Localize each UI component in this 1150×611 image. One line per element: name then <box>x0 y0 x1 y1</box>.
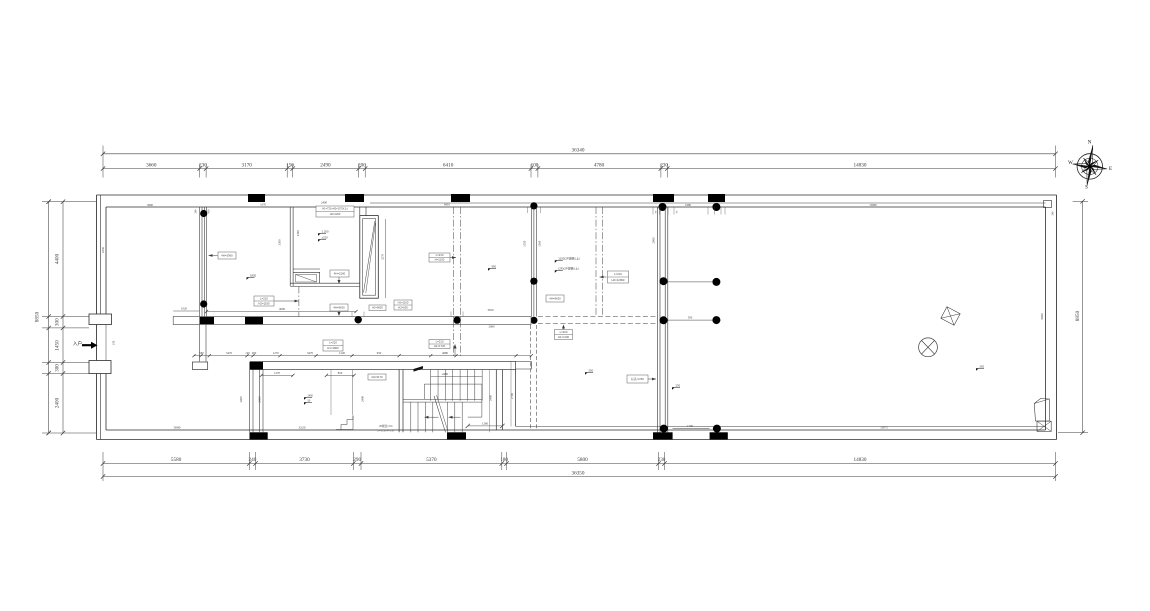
stair up arrow <box>454 345 456 356</box>
svg-text:W: W <box>1068 161 1073 166</box>
interior dim line y355.7 <box>194 355 531 357</box>
right wall inner line <box>1045 207 1047 430</box>
top dim tick <box>1055 146 1057 178</box>
right wall outer line <box>1056 195 1058 440</box>
svg-text:3170: 3170 <box>260 202 267 206</box>
elevation mark stairs right <box>585 373 592 375</box>
entrance pillar upper box <box>89 314 112 325</box>
svg-text:2400: 2400 <box>239 396 243 403</box>
svg-text:L=210: L=210 <box>436 253 444 257</box>
svg-text:4780: 4780 <box>594 162 605 168</box>
wall C column circle beam <box>530 317 537 324</box>
svg-text:H2=12990: H2=12990 <box>612 278 625 282</box>
wall B lines x291 <box>289 207 291 286</box>
left wall outer line <box>96 195 98 440</box>
svg-text:2980: 2980 <box>652 237 656 244</box>
top dim tick <box>530 164 532 178</box>
svg-text:E: E <box>1109 167 1112 172</box>
svg-text:8850: 8850 <box>35 311 41 322</box>
elevation mark hall b <box>555 271 562 273</box>
tall frame outer <box>360 216 379 299</box>
tall frame diagonal <box>364 221 375 293</box>
svg-text:1850: 1850 <box>250 274 257 278</box>
svg-text:L=210: L=210 <box>614 272 622 276</box>
label box K <box>608 271 629 283</box>
bottom dim tick <box>1055 452 1057 470</box>
top dim tick <box>358 164 360 178</box>
wall C lines x534 <box>530 207 532 317</box>
bottom dim tick <box>102 452 104 470</box>
svg-text:入户: 入户 <box>73 340 82 347</box>
shaft inner detail <box>296 275 317 283</box>
svg-text:290: 290 <box>353 457 361 463</box>
svg-text:3660: 3660 <box>146 162 157 168</box>
tall frame inner <box>363 219 376 296</box>
svg-text:3220: 3220 <box>299 426 306 430</box>
stair lower flight treads <box>410 402 412 432</box>
top dim tick <box>660 164 662 178</box>
dim vertical x352.5 <box>352 370 354 415</box>
svg-text:1980: 1980 <box>685 203 692 207</box>
svg-text:3660: 3660 <box>147 203 154 207</box>
top dim tick <box>199 164 201 178</box>
top-right corner column notch <box>1044 201 1052 208</box>
svg-text:36340: 36340 <box>572 148 585 154</box>
interior dim line y375.4 1270 <box>261 374 293 376</box>
svg-text:560: 560 <box>199 351 204 355</box>
top dim tick <box>292 164 294 178</box>
svg-text:1270: 1270 <box>274 371 281 375</box>
label box C <box>330 270 349 277</box>
svg-text:3270: 3270 <box>381 254 385 261</box>
svg-text:260: 260 <box>252 351 257 355</box>
svg-text:950: 950 <box>492 265 497 269</box>
right dimension line 8850 <box>1082 201 1084 432</box>
elevation mark wallD <box>672 388 679 390</box>
stair flight separator <box>403 398 482 400</box>
centerline x299 <box>298 287 300 317</box>
left wall inner line <box>105 207 107 314</box>
top segment dimension line <box>103 168 1056 170</box>
svg-text:2400: 2400 <box>489 395 493 402</box>
svg-text:200: 200 <box>358 162 366 168</box>
svg-text:6410: 6410 <box>444 202 451 206</box>
elevation mark room3 a <box>318 234 325 236</box>
column top wall x653 <box>653 194 674 202</box>
svg-text:850: 850 <box>338 371 343 375</box>
free column x716 bottom <box>713 425 721 433</box>
bottom dim tick <box>664 452 666 470</box>
svg-text:L=210: L=210 <box>260 297 268 301</box>
beam circle tick marks <box>351 312 353 317</box>
mid beam dashed continuation <box>538 316 658 318</box>
svg-text:230: 230 <box>199 162 207 168</box>
mid beam wall band <box>173 317 531 325</box>
svg-text:100: 100 <box>531 162 539 168</box>
wall x250 below to bottom <box>249 370 251 433</box>
free column x716 mid <box>712 278 720 286</box>
stair left wall <box>398 370 400 433</box>
bottom wall columns <box>250 432 268 439</box>
svg-text:1450: 1450 <box>55 340 61 351</box>
svg-text:1.200: 1.200 <box>322 230 329 234</box>
bottom dim tick <box>248 452 250 470</box>
svg-text:3170: 3170 <box>242 162 253 168</box>
svg-text:H=1100: H=1100 <box>435 258 445 262</box>
room dim 2700 <box>510 362 512 427</box>
svg-text:2490: 2490 <box>320 162 331 168</box>
label box D <box>254 296 274 306</box>
svg-text:250: 250 <box>589 369 594 373</box>
svg-text:5370: 5370 <box>426 457 437 463</box>
wall D column circle mid <box>660 277 668 285</box>
svg-text:2400: 2400 <box>55 397 61 408</box>
column tie line beam 500 <box>668 319 713 321</box>
svg-text:L=210: L=210 <box>436 340 444 344</box>
interior dim line y375.4 850 <box>326 374 354 376</box>
svg-text:3470: 3470 <box>307 351 314 355</box>
bottom dim tick <box>506 452 508 470</box>
svg-text:5080: 5080 <box>174 425 181 429</box>
column top wall x708 <box>708 194 725 202</box>
elevation mark hall a <box>555 261 562 263</box>
svg-text:2400: 2400 <box>321 201 328 205</box>
shaft bottom wall y285 <box>290 282 360 284</box>
right room end wall x516 <box>515 369 517 427</box>
svg-text:1400: 1400 <box>308 395 314 398</box>
top dim tick <box>205 164 207 178</box>
wall C top ticks <box>527 207 529 213</box>
dim 3270 rot <box>385 219 387 298</box>
svg-text:4H=3170: 4H=3170 <box>371 375 383 379</box>
label box I <box>546 295 564 302</box>
entrance pillar lower box <box>89 361 111 374</box>
svg-text:1220: 1220 <box>339 351 346 355</box>
elevation mark lower room a <box>304 398 311 400</box>
label box B <box>218 252 236 259</box>
svg-text:1560: 1560 <box>538 240 542 247</box>
label box A <box>316 206 354 217</box>
stair void rectangle <box>424 384 482 417</box>
column circle C-wall top <box>530 202 537 209</box>
bottom right corner ramp shape <box>1034 399 1049 422</box>
svg-text:120: 120 <box>245 351 250 355</box>
stair right dim 2400 <box>489 370 491 433</box>
svg-text:2=1850/9=150: 2=1850/9=150 <box>377 430 394 433</box>
svg-text:5800: 5800 <box>577 457 588 463</box>
label box G <box>394 300 412 310</box>
svg-text:150: 150 <box>286 162 294 168</box>
svg-text:H1=1100: H1=1100 <box>558 335 570 339</box>
svg-text:H2=2290: H2=2290 <box>330 212 341 216</box>
svg-text:S: S <box>1085 186 1088 191</box>
top wall middle line <box>370 202 1046 204</box>
svg-text:2400: 2400 <box>258 396 262 403</box>
top dim tick <box>537 164 539 178</box>
wall C column circle mid <box>530 278 537 285</box>
svg-text:L=220: L=220 <box>560 330 568 334</box>
stair upper flight treads <box>430 370 432 401</box>
shaft side <box>319 272 321 283</box>
svg-text:L=220: L=220 <box>329 341 337 345</box>
svg-text:2400: 2400 <box>361 396 365 403</box>
svg-text:1B梯宽:250: 1B梯宽:250 <box>379 424 393 428</box>
svg-text:3470: 3470 <box>226 351 233 355</box>
label box M <box>368 374 386 380</box>
mid beam column circle x457 <box>453 316 460 323</box>
svg-text:300: 300 <box>55 364 61 372</box>
stair direction arrow left flight <box>425 416 439 418</box>
svg-text:4H=9630: 4H=9630 <box>549 297 561 301</box>
svg-text:230: 230 <box>658 457 666 463</box>
dashed wall pair x533 lower <box>530 325 532 430</box>
left overall dimension line 8850 <box>48 202 50 433</box>
bottom dim tick <box>255 452 257 470</box>
column top wall x451 <box>451 194 470 202</box>
wall D lines x662 <box>656 207 658 434</box>
left dim tick <box>42 362 89 364</box>
bottom segment dimension line <box>103 463 1056 465</box>
svg-text:14830: 14830 <box>854 457 867 463</box>
top dim tick <box>666 164 668 178</box>
svg-text:4000: 4000 <box>279 307 286 311</box>
svg-text:1700: 1700 <box>687 424 694 428</box>
svg-text:1550: 1550 <box>523 240 527 247</box>
left dim tick <box>42 327 89 329</box>
svg-text:150: 150 <box>112 340 116 345</box>
svg-text:标高-3.050: 标高-3.050 <box>631 377 644 381</box>
top dim tick <box>364 164 366 178</box>
svg-text:240: 240 <box>249 457 257 463</box>
svg-text:6410: 6410 <box>443 162 454 168</box>
interior dim line y311 4000 <box>207 311 357 313</box>
svg-text:4H=2160: 4H=2160 <box>334 272 346 276</box>
svg-text:H2=9630: H2=9630 <box>372 306 383 310</box>
column circle D-wall top <box>659 203 667 211</box>
svg-text:H1=1720: H1=1720 <box>434 344 446 348</box>
lower wall band <box>250 362 515 370</box>
wall D column circle beam <box>660 316 668 324</box>
bottom dim tick <box>658 452 660 470</box>
elevation mark room4 <box>488 269 495 271</box>
svg-text:8850: 8850 <box>1075 310 1081 321</box>
centerline pair x599 <box>595 207 597 317</box>
svg-text:230: 230 <box>676 384 681 388</box>
stair right wall <box>495 370 497 431</box>
svg-text:180: 180 <box>500 457 508 463</box>
svg-text:1270: 1270 <box>273 351 280 355</box>
centerline pair x457 <box>453 207 455 356</box>
stair dim 1260 <box>468 425 503 427</box>
svg-text:4H=9630: 4H=9630 <box>333 306 345 310</box>
entrance arrow <box>82 342 98 349</box>
top wall outer line <box>97 194 1057 196</box>
elevation mark lower room b <box>304 403 311 405</box>
free column x716 beam <box>712 316 720 324</box>
stair section flag <box>414 366 424 372</box>
top dim tick <box>102 146 104 178</box>
svg-text:≥220: ≥220 <box>322 236 329 240</box>
bottom overall dimension line 36350 <box>103 476 1056 478</box>
svg-text:H1=720+H2=1570(上): H1=720+H2=1570(上) <box>322 207 348 211</box>
svg-text:3730: 3730 <box>299 457 310 463</box>
lower wall end rect <box>192 362 207 370</box>
bottom wall beam line right part <box>516 426 1046 428</box>
bottom dim tick <box>360 452 362 470</box>
svg-text:36350: 36350 <box>572 471 585 477</box>
compass rose <box>1070 143 1110 188</box>
frame link to top wall <box>359 207 361 216</box>
svg-text:H2=1160: H2=1160 <box>258 302 270 306</box>
mid beam column block 2 <box>245 317 263 324</box>
left wall line 2 <box>100 195 102 325</box>
svg-text:2060: 2060 <box>489 325 496 329</box>
stair dim 4480 <box>431 376 482 378</box>
column tie line bottom 1700 <box>673 428 710 430</box>
elevation mark room3 b <box>318 240 325 242</box>
interior dim 1020 above beam <box>173 310 199 312</box>
svg-text:H2=630: H2=630 <box>398 305 408 309</box>
column top wall x345 <box>345 194 364 202</box>
svg-text:8480: 8480 <box>1040 313 1044 320</box>
svg-text:1020: 1020 <box>181 306 188 310</box>
svg-text:3300: 3300 <box>277 239 281 246</box>
bottom dim tick <box>501 452 503 470</box>
svg-text:(2F)(2F轻钢)(上): (2F)(2F轻钢)(上) <box>558 267 579 271</box>
lower wall notch to wall C <box>516 362 532 370</box>
mid beam column block 1 <box>200 317 215 324</box>
left dim tick <box>42 201 96 203</box>
left dim tick <box>42 373 89 375</box>
shaft top wall y270 <box>293 268 320 270</box>
svg-text:2390: 2390 <box>296 230 300 237</box>
wall A lines x202 <box>199 207 201 317</box>
svg-text:1260: 1260 <box>482 421 489 425</box>
svg-text:4400: 4400 <box>55 253 61 264</box>
svg-text:14830: 14830 <box>854 162 867 168</box>
svg-text:250: 250 <box>980 365 985 369</box>
lower wall column block x250 <box>250 362 264 370</box>
diamond symbol <box>941 307 960 326</box>
stair break diagonal <box>434 396 446 432</box>
circle cross symbol <box>919 338 938 357</box>
label box E <box>429 253 450 262</box>
left wall door jamb line <box>105 325 107 361</box>
label box J <box>555 330 573 340</box>
bottom right corner cross box <box>1037 421 1051 431</box>
stair direction arrow right flight <box>449 416 461 418</box>
svg-text:H1=1800: H1=1800 <box>327 346 339 350</box>
column top wall x248 <box>248 194 265 202</box>
top wall inner line <box>106 206 1046 208</box>
svg-text:13075: 13075 <box>880 425 888 429</box>
svg-text:950: 950 <box>377 351 382 355</box>
wall A column circle upper <box>200 210 207 217</box>
elevation mark big room <box>976 369 983 371</box>
small steps mark <box>336 416 353 430</box>
wall A below beam <box>199 325 201 362</box>
svg-text:300: 300 <box>55 318 61 326</box>
svg-text:230: 230 <box>660 162 668 168</box>
left segment dimension line <box>62 202 64 433</box>
svg-text:4350: 4350 <box>101 247 105 254</box>
left dim tick <box>42 432 96 434</box>
svg-text:4H=3060: 4H=3060 <box>221 254 233 258</box>
elevation mark room2 <box>247 278 254 280</box>
wall A column circle lower <box>200 300 207 307</box>
svg-text:H1=1100: H1=1100 <box>398 300 409 304</box>
svg-text:2700: 2700 <box>510 393 514 400</box>
svg-text:N: N <box>1088 141 1092 146</box>
svg-text:4480: 4480 <box>442 372 449 376</box>
bottom wall inner line <box>106 429 1046 431</box>
left dim tick <box>42 316 89 318</box>
label box F <box>330 304 348 311</box>
svg-text:13800: 13800 <box>869 203 877 207</box>
svg-text:5580: 5580 <box>171 457 182 463</box>
label box L <box>323 340 343 351</box>
mid beam column circle x358 <box>355 316 362 323</box>
column circle x716 top <box>712 203 720 211</box>
column tie line mid <box>668 281 713 283</box>
top overall dimension line 36340 <box>103 153 1056 155</box>
wall D column circle bottom <box>660 425 668 433</box>
label box H <box>369 305 386 311</box>
top column tick marks <box>652 207 654 215</box>
bottom dim tick <box>352 452 354 470</box>
svg-text:1100(2F轻钢)(上): 1100(2F轻钢)(上) <box>558 257 579 261</box>
bottom wall outer line <box>97 439 1057 441</box>
top dim tick <box>286 164 288 178</box>
svg-text:3050: 3050 <box>488 308 495 312</box>
svg-text:4680: 4680 <box>442 351 449 355</box>
svg-text:500: 500 <box>688 315 693 319</box>
label box N <box>429 340 450 349</box>
label box P <box>627 375 648 383</box>
